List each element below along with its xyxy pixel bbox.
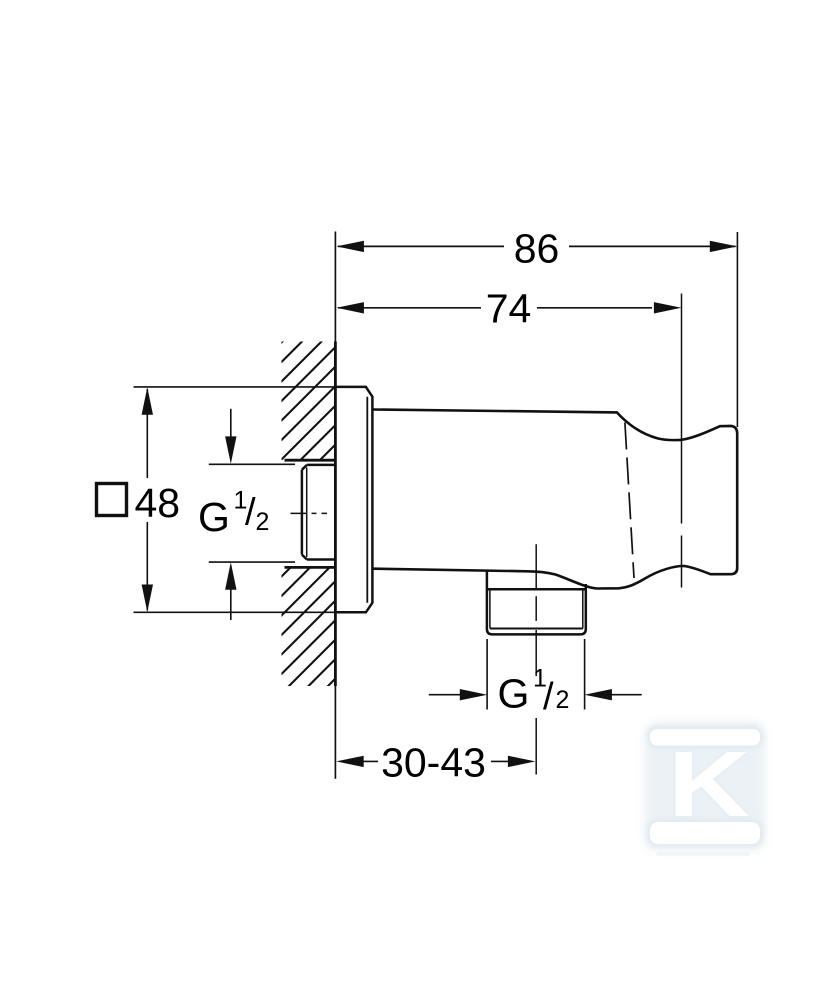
body and holder outline [372,410,737,589]
outlet nipple outline [487,571,586,635]
svg-text:K: K [668,732,750,836]
holder hidden edge (dashed) [625,423,634,579]
dimension 48 square symbol [97,484,127,516]
svg-text:30-43: 30-43 [381,739,486,785]
svg-text:/: / [543,676,554,718]
inlet thread outline [302,465,335,560]
wall hole top edge [285,459,336,462]
svg-text:2: 2 [556,686,570,714]
watermark K logo glow [645,722,765,850]
svg-text:74: 74 [486,285,532,331]
bottom G 1/2 extension lines [486,639,488,710]
inner thread dim up arrow [230,586,232,620]
escutcheon plate outline [335,387,372,612]
86 right extension line [736,232,738,427]
dimension 74 line [338,307,652,309]
bottom G 1/2 left arrow [429,694,461,696]
svg-text:48: 48 [135,480,181,526]
svg-text:2: 2 [256,508,270,536]
wall face line [334,232,336,342]
dimension 48 ticks [134,386,336,388]
dimension 30-43 line [363,760,509,762]
bottom G 1/2 label [498,665,570,718]
inlet centerline [291,512,328,514]
svg-text:G: G [498,671,530,717]
escutcheon plate chamfer edge [366,397,368,603]
inner thread dim ticks [209,463,295,465]
outlet centerline [535,544,537,774]
dimension 48 line [146,389,148,611]
left G 1/2 label [198,487,269,541]
outlet nipple chamfer line [490,628,583,630]
holder centerline / 74 extension [681,294,683,588]
dimension 86 line [338,245,736,247]
inlet thread root line [306,468,308,558]
svg-text:/: / [245,492,256,534]
svg-text:86: 86 [514,225,560,271]
svg-text:G: G [198,494,230,540]
outlet nipple thread root lines [489,591,491,629]
bottom G 1/2 right arrow [611,694,642,696]
wall hatch [282,342,336,461]
wall hole bottom edge [285,566,336,569]
outlet nipple thread top line [487,588,586,591]
inner thread dim down arrow [230,409,232,440]
watermark K logo white shapes [650,729,760,856]
